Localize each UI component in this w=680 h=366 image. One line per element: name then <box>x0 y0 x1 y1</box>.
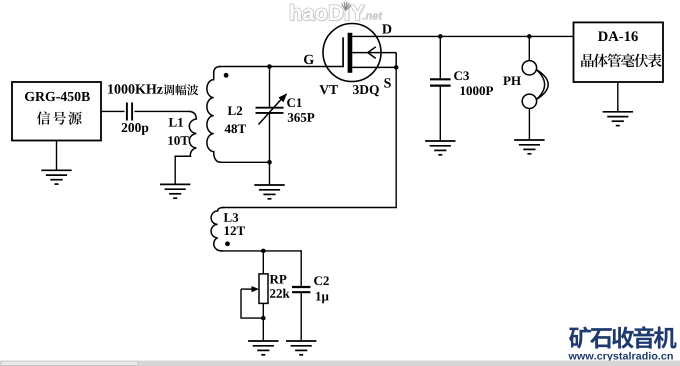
gate line <box>342 37 344 67</box>
wire L3 bottom rail <box>221 250 301 252</box>
label S <box>384 78 390 87</box>
label 信号源 <box>37 111 51 124</box>
label 10T <box>168 136 188 145</box>
node: junction dot C3 <box>438 34 443 39</box>
label C1 <box>287 98 302 107</box>
node: junction dot RP bottom <box>261 316 266 321</box>
label C2 <box>314 276 329 285</box>
label PH <box>503 76 521 85</box>
label D <box>382 24 391 33</box>
wire L2 top to gate (node G) <box>219 66 344 68</box>
wire box to C200p <box>101 110 125 112</box>
label 48T <box>225 124 246 133</box>
inductor L2 <box>207 67 221 163</box>
source bottom lead <box>352 66 396 68</box>
wire C1 to ground <box>269 162 271 185</box>
ground (RP) <box>248 341 278 355</box>
label VT <box>319 85 337 94</box>
label 晶体管毫伏表 <box>581 54 594 67</box>
label C3 <box>454 71 469 80</box>
node: junction dot PH <box>527 34 532 39</box>
inductor L1 <box>175 111 196 156</box>
label DA-16 <box>598 31 638 41</box>
drain lead <box>352 35 375 37</box>
wire PH to ground <box>528 109 530 141</box>
phase dot L2 <box>224 73 229 78</box>
capacitor 200p <box>127 103 132 121</box>
node: junction dot C1 bottom <box>267 160 272 165</box>
ground (C1/L2) <box>254 185 284 199</box>
wire RP to ground <box>262 318 264 341</box>
label L1 <box>169 118 183 127</box>
label 1000KHz调幅波 <box>108 84 163 93</box>
wiper arrow <box>241 288 254 290</box>
ground (L1) <box>160 184 190 198</box>
phase dot L3 <box>225 241 230 246</box>
label L3 <box>224 213 239 222</box>
node: junction dot C1 top <box>267 64 272 69</box>
label RP <box>270 275 287 284</box>
logo 矿石收音机 <box>569 326 591 348</box>
label L2 <box>228 106 242 115</box>
variable capacitor C1 <box>256 67 284 163</box>
watermark haoDIY.net <box>292 6 366 22</box>
wire drain rail to DA-16 <box>375 35 574 37</box>
label 12T <box>225 226 245 235</box>
bottom scrollbar <box>0 361 680 366</box>
label 3DQ <box>353 85 379 96</box>
capacitor C2 <box>292 250 310 341</box>
node S terminal dot <box>394 65 399 70</box>
source mid lead with arrow <box>352 47 396 68</box>
wiper return wire <box>241 289 263 318</box>
label G <box>304 55 314 64</box>
transistor VT 3DQ (JFET) <box>323 24 381 82</box>
ground (signal source) <box>41 170 71 184</box>
capacitor C3 <box>430 36 451 141</box>
wire L1 to ground <box>174 156 176 185</box>
label 1000P <box>461 86 494 95</box>
wire box to ground <box>56 141 58 170</box>
wire C200p to L1 <box>135 110 190 112</box>
ground (PH) <box>514 140 544 154</box>
signal generator box GRG-450B <box>12 82 101 141</box>
wire source to L3 top <box>222 67 396 207</box>
node: junction dot RP top <box>261 249 266 254</box>
ground (DA-16) <box>603 112 633 126</box>
label 1μ <box>316 292 329 303</box>
wire L2 bottom to C1 <box>220 161 270 163</box>
channel bar <box>348 33 353 73</box>
ground (C3) <box>425 141 455 155</box>
potentiometer RP <box>262 251 264 274</box>
label 365P <box>288 113 315 122</box>
label 22k <box>270 289 290 298</box>
label 200p <box>122 123 149 135</box>
millivoltmeter box DA-16 <box>574 22 664 82</box>
wire DA-16 to ground <box>617 82 619 112</box>
ground (C2) <box>286 341 316 355</box>
inductor L3 <box>211 208 224 251</box>
logo url www.crystalradio.cn <box>568 352 672 362</box>
headphone PH <box>528 36 530 60</box>
label GRG-450B <box>25 92 90 101</box>
